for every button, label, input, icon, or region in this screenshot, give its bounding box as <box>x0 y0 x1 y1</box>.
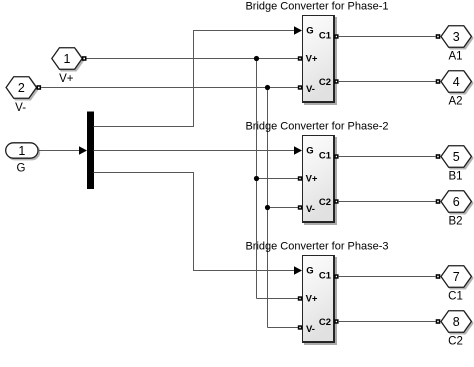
port marker of outport 7 <box>436 274 441 279</box>
outport hexagon 6 (B2) <box>441 191 473 214</box>
port V+ of U3 <box>298 296 302 300</box>
arrowhead G converter 3 <box>294 266 302 274</box>
svg-text:3: 3 <box>453 30 460 44</box>
svg-text:C2: C2 <box>319 197 331 208</box>
demux bar <box>87 112 94 190</box>
port marker of outport 4 <box>436 79 441 84</box>
port marker of outport 8 <box>436 319 441 324</box>
wire C output to outport 5 <box>339 156 436 158</box>
inport oval 1 (G) <box>6 143 40 160</box>
svg-text:4: 4 <box>453 75 460 89</box>
svg-text:1: 1 <box>18 144 25 158</box>
svg-text:C2: C2 <box>319 77 331 88</box>
svg-text:8: 8 <box>453 315 460 329</box>
svg-text:C1: C1 <box>319 151 332 162</box>
junction V+ node 1 <box>254 56 259 61</box>
wire C output to outport 6 <box>339 201 436 203</box>
port V- of U2 <box>298 205 302 209</box>
svg-text:B2: B2 <box>448 216 462 228</box>
svg-text:C1: C1 <box>319 271 332 282</box>
port marker of outport 6 <box>436 199 441 204</box>
outport hexagon 3 (A1) <box>441 26 473 49</box>
svg-text:1: 1 <box>64 52 71 66</box>
svg-text:A1: A1 <box>448 51 462 63</box>
wire V- vertical branch <box>267 88 269 328</box>
svg-text:A2: A2 <box>448 96 462 108</box>
svg-text:Bridge Converter for Phase-2: Bridge Converter for Phase-2 <box>245 120 388 132</box>
subsystem block U3 Bridge Converter for Phase-3 <box>302 255 337 345</box>
subsystem block U2 Bridge Converter for Phase-2 <box>302 135 337 225</box>
port C1 of U2 <box>334 154 338 158</box>
inport hexagon 2 (V-) <box>6 77 38 100</box>
svg-text:2: 2 <box>18 81 25 95</box>
arrowhead into demux <box>79 146 87 154</box>
inport hexagon 1 (V+) <box>52 48 84 71</box>
port marker of outport 3 <box>436 34 441 39</box>
svg-text:V+: V+ <box>306 293 318 304</box>
svg-text:C2: C2 <box>448 336 463 348</box>
junction V+ node 2 <box>254 176 259 181</box>
svg-text:C1: C1 <box>448 291 463 303</box>
port marker of inport 2 <box>37 85 42 90</box>
port V- of U3 <box>298 325 302 329</box>
svg-text:V+: V+ <box>306 53 318 64</box>
port V+ of U2 <box>298 176 302 180</box>
svg-text:C1: C1 <box>319 31 332 42</box>
wire C output to outport 4 <box>339 81 436 83</box>
wire C output to outport 7 <box>339 276 436 278</box>
svg-text:C2: C2 <box>319 317 331 328</box>
wire G to converter 3 <box>94 173 295 271</box>
svg-text:Bridge Converter for Phase-3: Bridge Converter for Phase-3 <box>245 240 388 252</box>
wire V+ main <box>87 58 299 60</box>
wire C output to outport 8 <box>339 321 436 323</box>
outport hexagon 4 (A2) <box>441 71 473 94</box>
port marker of outport 5 <box>436 154 441 159</box>
subsystem block U1 Bridge Converter for Phase-1 <box>302 15 337 105</box>
wire G to converter 2 <box>94 150 295 152</box>
wire V+ vertical branch <box>256 59 258 299</box>
svg-text:G: G <box>17 163 26 175</box>
svg-text:B1: B1 <box>448 171 462 183</box>
wire C output to outport 3 <box>339 36 436 38</box>
svg-text:V+: V+ <box>306 173 318 184</box>
junction V- node 1 <box>265 85 270 90</box>
port marker of inport 1 <box>82 56 87 61</box>
junction V- node 2 <box>265 205 270 210</box>
svg-text:V-: V- <box>306 324 315 335</box>
port C2 of U2 <box>334 199 338 203</box>
wire G to converter 1 <box>94 31 295 127</box>
svg-text:5: 5 <box>453 150 460 164</box>
svg-text:V-: V- <box>306 84 315 95</box>
outport hexagon 5 (B1) <box>441 146 473 169</box>
svg-text:6: 6 <box>453 195 460 209</box>
svg-text:V-: V- <box>15 102 26 114</box>
outport hexagon 8 (C2) <box>441 311 473 334</box>
svg-text:7: 7 <box>453 270 460 284</box>
port V+ of U1 <box>298 56 302 60</box>
port C1 of U3 <box>334 274 338 278</box>
port V- of U1 <box>298 85 302 89</box>
svg-text:G: G <box>306 266 313 277</box>
wire G input <box>38 150 80 152</box>
port C1 of U1 <box>334 34 338 38</box>
svg-text:Bridge Converter for Phase-1: Bridge Converter for Phase-1 <box>245 0 388 12</box>
svg-text:V+: V+ <box>59 73 74 85</box>
outport hexagon 7 (C1) <box>441 266 473 289</box>
arrowhead G converter 1 <box>294 26 302 34</box>
wire V+ to converter 2 <box>257 178 299 180</box>
port C2 of U3 <box>334 319 338 323</box>
wire V- main <box>41 87 298 89</box>
svg-text:G: G <box>306 26 313 37</box>
wire V- to converter 2 <box>268 207 299 209</box>
svg-text:G: G <box>306 146 313 157</box>
wire V- to converter 3 <box>268 327 299 329</box>
svg-text:V-: V- <box>306 204 315 215</box>
port C2 of U1 <box>334 79 338 83</box>
wire V+ to converter 3 <box>257 298 299 300</box>
arrowhead G converter 2 <box>294 146 302 154</box>
